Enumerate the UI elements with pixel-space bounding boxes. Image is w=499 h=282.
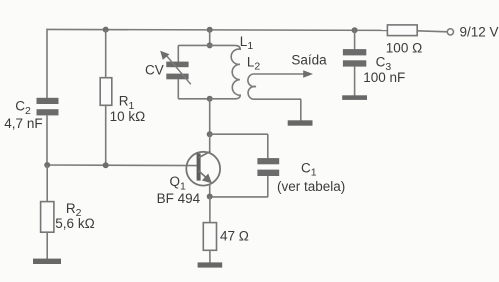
label 47 Ohm <box>220 229 249 244</box>
node collector junction <box>207 131 213 137</box>
node base-R1 junction <box>103 162 109 168</box>
label Q1 type BF 494 <box>157 191 201 206</box>
wire left rail lower <box>46 115 48 165</box>
svg-text:10 kΩ: 10 kΩ <box>110 109 146 124</box>
resistor 100 Ohm <box>387 25 417 36</box>
label L2 <box>247 54 261 72</box>
capacitor CV <box>166 62 188 80</box>
wire C1 bottom lead <box>210 176 268 197</box>
CV arrow <box>160 51 191 85</box>
ground below C3 <box>342 95 367 100</box>
wire CV top lead <box>178 45 209 62</box>
svg-text:100 Ω: 100 Ω <box>386 40 422 55</box>
resistor R2 <box>41 202 54 233</box>
Saida output arrow <box>303 70 313 77</box>
label C1 <box>301 160 317 178</box>
wire R1 top lead <box>105 30 107 78</box>
supply terminal <box>447 29 453 35</box>
label L1 <box>240 34 254 52</box>
svg-text:Saída: Saída <box>291 53 327 68</box>
svg-text:(ver tabela): (ver tabela) <box>277 179 345 194</box>
wire tank to collector node <box>209 99 211 134</box>
node tank top <box>207 42 213 48</box>
capacitor C3 <box>343 49 366 67</box>
svg-text:C2: C2 <box>15 98 31 117</box>
svg-text:4,7 nF: 4,7 nF <box>4 116 42 131</box>
node tank bottom <box>207 96 213 102</box>
label C2 <box>15 98 31 117</box>
svg-text:Q1: Q1 <box>170 174 187 192</box>
resistor 47 Ohm <box>203 223 216 251</box>
label CV <box>145 63 164 78</box>
node top rail tank junction <box>207 27 213 33</box>
label R2 <box>66 201 82 219</box>
node emitter junction <box>207 194 213 200</box>
label Saida <box>291 53 327 68</box>
label Q1 <box>170 174 187 192</box>
label C3 <box>376 54 392 73</box>
transistor Q1 <box>186 151 220 185</box>
svg-text:5,6 kΩ: 5,6 kΩ <box>55 216 94 231</box>
wire C3 top lead <box>354 30 356 49</box>
label 100 Ohm <box>386 40 422 55</box>
wire emitter to node <box>209 184 211 197</box>
svg-text:C1: C1 <box>301 160 317 178</box>
ground below R2 <box>33 259 61 264</box>
capacitor C1 <box>257 158 279 176</box>
svg-text:47 Ω: 47 Ω <box>220 229 249 244</box>
label R1 <box>119 94 135 112</box>
wire R2 top lead <box>46 165 48 202</box>
svg-text:100 nF: 100 nF <box>363 70 405 85</box>
wire C1 top lead <box>210 134 268 158</box>
wire CV bottom lead <box>178 79 209 99</box>
svg-text:CV: CV <box>145 63 164 78</box>
wire L2 to ground <box>299 99 302 120</box>
node R1 top junction <box>103 27 109 33</box>
wire R2 bottom lead <box>46 232 48 259</box>
wire base line <box>47 164 197 167</box>
svg-text:9/12 V: 9/12 V <box>460 25 499 40</box>
label R1 value 10 kOhm <box>110 109 146 124</box>
inductor L2 <box>248 74 304 99</box>
label C2 value 4,7 nF <box>4 116 42 131</box>
wire rail to tank <box>209 30 211 46</box>
inductor L1 <box>210 45 241 98</box>
svg-text:L1: L1 <box>240 34 254 52</box>
resistor R1 <box>100 78 112 106</box>
capacitor C2 <box>37 98 59 116</box>
wire C3 bottom lead <box>354 67 356 96</box>
ground below L2 <box>288 120 313 125</box>
wire collector node to transistor <box>209 134 211 153</box>
ground below 47 Ohm <box>198 262 223 267</box>
label R2 value 5,6 kOhm <box>55 216 94 231</box>
wire emitter node down <box>209 197 211 224</box>
wire 47 Ohm bottom lead <box>209 250 211 262</box>
svg-text:BF 494: BF 494 <box>157 191 201 206</box>
svg-text:L2: L2 <box>247 54 261 72</box>
wire top rail right to terminal <box>417 31 447 32</box>
wire top rail left <box>47 29 388 30</box>
node base-left junction <box>44 162 50 168</box>
wire R1 bottom lead <box>105 105 107 165</box>
node C3 top junction <box>352 27 358 33</box>
label 9/12 V <box>460 25 499 40</box>
label C1 note (ver tabela) <box>277 179 345 194</box>
label C3 value 100 nF <box>363 70 405 85</box>
wire left rail upper <box>46 29 48 99</box>
